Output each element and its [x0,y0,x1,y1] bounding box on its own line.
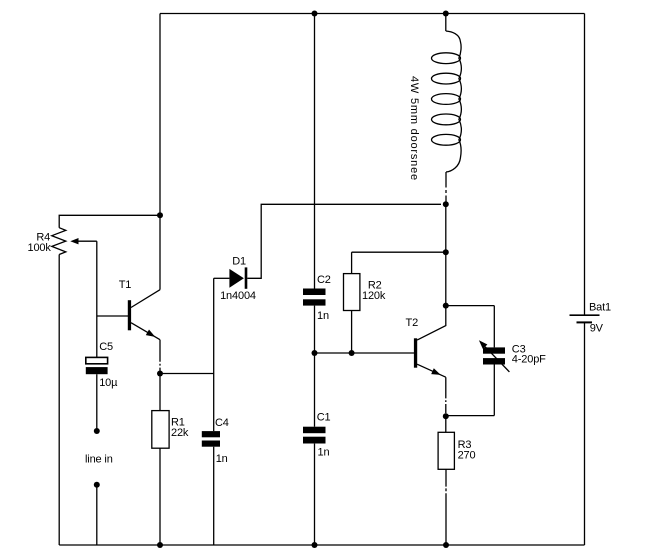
svg-text:9V: 9V [590,323,604,335]
wire D1 anode to C4 [213,278,215,431]
svg-text:Bat1: Bat1 [589,301,611,313]
node R2 junction [443,249,449,255]
potentiometer R4 100k [28,228,97,255]
svg-text:C1: C1 [317,411,331,423]
wire base node down to C1 [314,353,316,427]
resistor R1 22k [152,374,189,546]
wire D1 cathode to coil node [247,204,441,278]
svg-text:D1: D1 [232,256,246,268]
wire left rail [159,14,161,216]
node top rail middle junction [312,11,318,17]
wire middle branch vertical [314,14,316,289]
svg-text:1n4004: 1n4004 [220,290,256,302]
capacitor C4 1n [202,417,229,545]
svg-text:4W 5mm doorsnee: 4W 5mm doorsnee [408,76,420,181]
wire emitter node to C4 [160,373,214,375]
wire collector node to C3 [446,305,495,307]
svg-text:120k: 120k [362,290,386,302]
wire line-in lower to ground [96,485,98,545]
wire top rail [160,13,585,15]
node T1 emitter junction [157,371,163,377]
svg-text:270: 270 [458,450,476,462]
wire T2 base [315,352,415,354]
node R3 ground junction [443,542,449,548]
inductor L1 4W 5mm doorsnee [408,14,462,181]
svg-text:22k: 22k [171,427,189,439]
transistor T2 [406,306,446,378]
svg-text:C4: C4 [215,417,229,429]
node T2 collector junction [443,303,449,309]
node junction left rail R4 [157,212,163,218]
wire right battery rail upper [584,14,586,316]
svg-text:line in: line in [85,454,113,466]
wire R4 bottom to ground rail [58,255,60,546]
wire T2 emitter [445,377,447,413]
wire T1 emitter [159,340,161,374]
wire coil bottom [445,172,447,204]
svg-text:C2: C2 [317,274,331,286]
svg-text:1n: 1n [216,453,228,465]
wire right battery rail lower [584,322,586,545]
wire C2 to base node [314,306,316,353]
wire bottom ground rail [59,544,584,546]
node line-in terminal upper [94,428,100,434]
node T2 emitter junction [443,413,449,419]
diode D1 1n4004 [214,256,256,303]
wire R2 to coil line [352,251,446,253]
resistor R2 120k [344,252,386,353]
wire R2 node to collector node [445,252,447,305]
wire C3 bottom return [446,415,495,417]
capacitor C3 4-20pF [479,306,546,416]
node line-in terminal lower [94,482,100,488]
svg-text:1n: 1n [318,447,330,459]
wire T1 collector [159,215,161,289]
node R1 ground junction [157,542,163,548]
svg-text:4-20pF: 4-20pF [512,353,546,365]
resistor R3 270 [438,416,475,545]
node coil bottom junction [443,201,449,207]
capacitor C2 1n [303,274,331,322]
svg-text:10µ: 10µ [99,377,118,389]
node coil top junction [443,11,449,17]
wire R4 top feed [59,215,160,227]
wire wiper down to C5 [96,241,98,357]
battery Bat1 9V [570,301,612,334]
svg-text:100k: 100k [28,242,52,254]
wire C1 to ground [314,444,316,545]
node R2 base junction [349,350,355,356]
node C1 ground junction [312,542,318,548]
wire coil node to R2 node [445,204,447,252]
capacitor C1 1n [303,411,330,458]
capacitor C5 10u [86,341,118,431]
svg-text:T2: T2 [406,317,419,329]
transistor T1 [119,279,160,340]
node T2 base node [312,350,318,356]
svg-text:1n: 1n [317,310,329,322]
wire T1 base [97,315,128,317]
svg-text:C5: C5 [99,341,113,353]
svg-text:T1: T1 [119,279,132,291]
